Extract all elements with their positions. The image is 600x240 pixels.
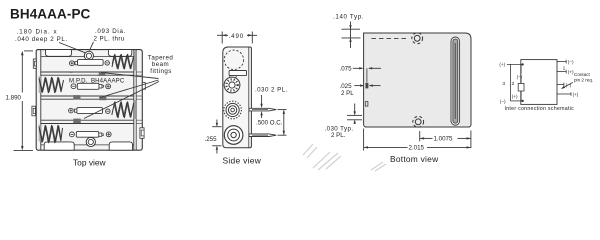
tapered beam tab divider3 [73, 119, 80, 124]
battery collar row1 [75, 62, 78, 65]
dimension 1.0075 [419, 131, 421, 141]
left edge latch bump row1 [33, 59, 36, 68]
contact plus row4 [106, 132, 111, 137]
contact plus row2 [106, 84, 111, 89]
tapered beam tab divider2 left [73, 95, 80, 99]
svg-text:Inter connection schematic: Inter connection schematic [505, 106, 575, 112]
side view outline [223, 47, 252, 148]
svg-text:Bottom view: Bottom view [390, 154, 439, 164]
svg-text:.490: .490 [229, 33, 245, 40]
contact minus row4 [70, 132, 75, 137]
dimension 2.015 [363, 129, 365, 151]
pin 1 [249, 108, 276, 111]
battery cylinder row1 [78, 60, 104, 66]
contact plus row3 [69, 108, 74, 113]
wire from cell [520, 91, 522, 101]
knurled eyelet circle 2 [224, 101, 242, 119]
leader tapered 3 [84, 82, 159, 119]
svg-text:.075: .075 [340, 65, 353, 72]
battery collar row3 [74, 109, 77, 112]
spring row1 right [112, 54, 134, 69]
right edge latch bump row2 [142, 83, 145, 90]
spring shading right wall row1 [134, 51, 136, 71]
contact plus row1 [70, 61, 75, 66]
top rib left [46, 50, 72, 57]
contact minus row1 [105, 61, 109, 65]
svg-text:2 PL. thru: 2 PL. thru [94, 36, 125, 43]
spring row3 right [112, 102, 134, 119]
dimension .500 O.C. [278, 109, 287, 111]
svg-text:1.890: 1.890 [6, 94, 22, 101]
pad target top [414, 35, 420, 41]
leader contact pin [562, 82, 573, 88]
dimension .255 [212, 126, 221, 128]
side view right inner wall [248, 47, 250, 148]
slot center line [454, 43, 456, 119]
tapered beam tab divider1 [99, 71, 106, 76]
svg-text:.140 Typ.: .140 Typ. [333, 13, 364, 20]
spring row4 left [39, 125, 63, 143]
stub 2 right [557, 71, 566, 73]
leader .093 to top hole [90, 42, 94, 51]
divider 1 double line [41, 71, 134, 73]
contact minus row2 [71, 84, 76, 89]
battery dashed circle [224, 50, 243, 69]
cell rect [518, 83, 524, 91]
knurled wheel circle 1 [224, 77, 240, 93]
spring row2 left [39, 77, 64, 93]
leader .180 to top hole [59, 43, 85, 53]
svg-text:Contact: Contact [574, 72, 591, 77]
slot outer [451, 37, 460, 125]
svg-text:(−): (−) [566, 83, 572, 88]
wire to cell [520, 80, 522, 84]
svg-text:Top view: Top view [73, 157, 107, 167]
dimension .030 Typ 2 PL [354, 104, 356, 115]
svg-text:.040 deep 2 PL.: .040 deep 2 PL. [15, 36, 68, 43]
svg-text:fittings: fittings [150, 68, 171, 75]
svg-text:(+): (+) [512, 94, 518, 99]
svg-text:2 PL: 2 PL [341, 90, 354, 97]
eyelet circle 3 [224, 126, 243, 145]
pin 2 [249, 134, 276, 137]
bottom rib left [44, 142, 74, 150]
bottom view outline [364, 33, 471, 127]
bottom rib right [109, 142, 132, 150]
top view bottom inner wall [41, 144, 134, 146]
svg-text:.500 O.C.: .500 O.C. [256, 119, 283, 126]
leader tapered 2 [100, 80, 159, 98]
svg-text:2: 2 [512, 81, 515, 87]
junction dot bottom [521, 100, 523, 102]
top view top inner wall [41, 56, 134, 58]
svg-text:(−): (−) [517, 75, 523, 80]
hole bottom center (.180/.093) [86, 137, 95, 146]
svg-text:1: 1 [563, 66, 566, 72]
wire vertical 2 upper [520, 64, 522, 73]
svg-text:.030 2 PL.: .030 2 PL. [255, 87, 288, 94]
battery cylinder row2 [77, 83, 99, 89]
svg-text:.180 Dia. x: .180 Dia. x [17, 29, 58, 36]
divider 3 double line [41, 119, 134, 121]
wire bottom left [510, 100, 522, 102]
svg-text:2.015: 2.015 [409, 145, 425, 152]
leader tapered 1 [101, 73, 159, 79]
top view left inner wall [40, 50, 42, 151]
battery step row4 [99, 133, 102, 136]
svg-text:Side view: Side view [223, 155, 262, 165]
svg-text:2 PL.: 2 PL. [331, 132, 346, 139]
right edge latch bump row4 [140, 128, 144, 139]
svg-text:3: 3 [502, 81, 505, 87]
schematic box [521, 60, 557, 105]
spring shading left wall row2 [39, 76, 41, 93]
pad target bottom [415, 119, 421, 125]
divider 2 double line [41, 95, 134, 97]
tapered beam tab divider2 right [99, 96, 106, 100]
svg-text:1.0075: 1.0075 [434, 136, 453, 143]
stub 4 right [557, 93, 571, 95]
wire top left [507, 63, 523, 65]
svg-text:(+): (+) [573, 92, 579, 97]
battery step row2 [99, 85, 102, 89]
svg-text:BH4AAA-PC: BH4AAA-PC [10, 7, 91, 22]
wire vertical 3 [509, 64, 511, 101]
pin cross-section 1 [365, 83, 368, 89]
svg-text:.093 Dia.: .093 Dia. [95, 28, 126, 35]
left edge latch bump row3 [32, 106, 36, 116]
scan noise bottom left of bottom view [303, 144, 386, 171]
svg-text:pin 2 req.: pin 2 req. [574, 77, 593, 82]
svg-text:(−): (−) [568, 60, 574, 65]
contact plate [229, 71, 246, 76]
dashed centerline to hole [372, 37, 409, 39]
hole top center (.180/.093) [84, 51, 93, 60]
dimension .490 [221, 32, 223, 44]
dimension 1.890 [24, 50, 33, 52]
spring shading left wall row4 [39, 125, 41, 142]
top view right inner wall lines [133, 50, 135, 151]
spring shading right wall row3 [134, 100, 136, 119]
stub 3 right [557, 83, 564, 85]
svg-text:(−): (−) [500, 99, 506, 104]
right wall ties [136, 72, 142, 124]
slot inner [453, 39, 458, 123]
svg-text:.025: .025 [340, 83, 353, 90]
svg-text:.255: .255 [205, 136, 218, 143]
plate tab [230, 76, 237, 80]
junction dot top [521, 63, 523, 65]
contact minus row3 [106, 109, 110, 113]
stub 1 right [557, 61, 566, 63]
pin cross-section 2 [365, 102, 368, 107]
top view outer body outline [36, 50, 142, 151]
svg-text:(+): (+) [499, 62, 505, 67]
top rib right [109, 50, 132, 57]
battery cylinder row4 [76, 132, 99, 138]
battery cylinder row3 [77, 108, 103, 114]
